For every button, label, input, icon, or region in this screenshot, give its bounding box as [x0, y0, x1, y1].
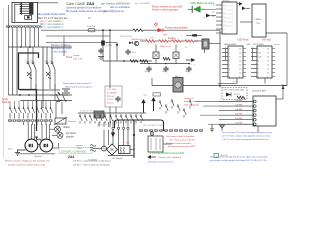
resistor R3 red: [172, 40, 181, 43]
diode D2: [129, 42, 132, 45]
wire: [257, 126, 259, 132]
svg-text:1N4148 zener 4,7v: 1N4148 zener 4,7v: [131, 38, 147, 41]
wire drop: [33, 28, 35, 47]
transformer T1 box: [119, 146, 131, 154]
wire contact down: [49, 75, 51, 89]
svg-text:10: 10: [267, 72, 269, 74]
wire lamp feed: [53, 147, 59, 149]
relay K4 box: [153, 52, 159, 59]
wire: [175, 59, 177, 64]
svg-text:0,5T a 45: 0,5T a 45: [73, 59, 83, 61]
wire drop: [29, 28, 31, 47]
capacitor C3: [98, 48, 103, 54]
wire ground link: [17, 149, 26, 151]
arrow left glyph: [148, 156, 156, 159]
svg-text:5: 5: [229, 64, 230, 66]
svg-text:14: 14: [267, 56, 269, 58]
node junction: [133, 134, 135, 136]
terminal T9: [44, 119, 47, 121]
svg-text:boutons radio: boutons radio: [184, 100, 198, 103]
wire elbow drop: [118, 120, 120, 127]
wire U3 pin 3: [216, 12, 222, 14]
wire U5 input 3: [219, 110, 253, 112]
wire: [41, 122, 43, 125]
svg-text:Fe: Fe: [31, 61, 33, 63]
wire elbow drop: [103, 122, 105, 127]
terminal power: [122, 127, 124, 129]
terminal pin 2 of J1: [20, 6, 33, 8]
diode D10: [116, 44, 119, 47]
wire U3 pin 8: [216, 32, 222, 34]
wire U3 pin 6: [216, 24, 222, 26]
wire: [196, 101, 219, 103]
contact row2 S12: [85, 114, 88, 124]
terminal row3 12: [194, 129, 197, 131]
contact row2 S18: [116, 114, 119, 124]
wire: [194, 40, 198, 42]
svg-text:8: 8: [258, 76, 259, 78]
svg-text:Me joyade Kindly aviser ou cor: Me joyade Kindly aviser ou corriger:: [66, 9, 108, 13]
svg-text:ULN bloc: ULN bloc: [222, 1, 230, 3]
svg-text:+5V reg: +5V reg: [262, 39, 271, 42]
svg-text:1 2 3C 3 5 7 TL TX: 1 2 3C 3 5 7 TL TX: [80, 111, 96, 113]
node junction: [19, 94, 21, 96]
svg-text:RST: RST: [212, 12, 215, 14]
svg-text:Cde REL: Cde REL: [235, 104, 243, 106]
wire top link: [38, 2, 59, 4]
svg-text:R22 4k7: R22 4k7: [107, 96, 115, 98]
wire under motors: [19, 153, 55, 155]
svg-text:100n: 100n: [112, 89, 116, 91]
wire: [246, 7, 251, 9]
wire under ICs: [218, 83, 237, 85]
contact S8: [41, 106, 44, 116]
wire: [175, 45, 177, 53]
opto module dashed box: [222, 88, 247, 100]
svg-text:Portese ouverte : Kyudesos 10u: Portese ouverte : Kyudesos 10u y pelude …: [5, 160, 51, 163]
wire U1 left pin 5: [222, 64, 228, 66]
wire: [32, 101, 34, 106]
relay K5 box: [173, 52, 179, 59]
wire fuse column: [102, 30, 104, 61]
contact row2 S20: [126, 114, 129, 124]
motor M2: [40, 139, 53, 152]
contact aux: [160, 100, 163, 110]
wire: [9, 116, 11, 119]
wire: [32, 116, 34, 119]
svg-text:alim et verification: alim et verification: [110, 6, 131, 9]
wire: [7, 5, 9, 95]
svg-text:( 12 V ) et le contact compose: ( 12 V ) et le contact composeutral sel …: [222, 138, 269, 141]
svg-text:9: 9: [267, 76, 268, 78]
pin circle U5.4: [254, 114, 257, 117]
terminal power: [117, 127, 119, 129]
wire right rail: [286, 33, 288, 86]
wire U2 left pin 2: [251, 52, 257, 54]
contact S10: [50, 106, 53, 116]
node junction: [188, 63, 190, 65]
wire right vertical: [219, 30, 221, 87]
node junction: [102, 29, 104, 31]
contact row2 S17: [110, 114, 113, 124]
terminal T3: [17, 119, 20, 121]
wire relay to right rail: [183, 85, 287, 87]
thick feeder vertical: [133, 120, 135, 158]
svg-text:C11 47u: C11 47u: [107, 99, 114, 101]
wire: [236, 78, 238, 84]
wire: [45, 122, 47, 125]
svg-text:11: 11: [239, 68, 241, 70]
terminal row3 9: [179, 129, 182, 131]
svg-text:Proga: Proga: [66, 56, 73, 59]
fuse F2 body: [101, 41, 105, 46]
wire: [45, 101, 47, 106]
wire: [108, 130, 110, 145]
wire U1 left pin 8: [222, 76, 228, 78]
svg-text:1: 1: [258, 48, 259, 50]
terminal X1: [7, 25, 10, 27]
wire: [27, 116, 29, 119]
wire: [116, 43, 118, 62]
terminal row3 4: [154, 129, 157, 131]
svg-text:R20: R20: [126, 143, 129, 145]
svg-text:470uF: 470uF: [145, 71, 151, 73]
wire: [9, 101, 11, 106]
wire U1 right pin 15: [243, 52, 246, 54]
wire elbow drop: [112, 120, 114, 127]
wire: [14, 101, 16, 106]
lamp signal: [57, 132, 63, 138]
transistor Q3: [134, 41, 138, 45]
wire: [151, 132, 153, 137]
ground: [98, 57, 104, 60]
svg-text:Nota : le contact (FI 100 SC): Nota : le contact (FI 100 SC) peut etre …: [210, 156, 268, 159]
contact aux: [190, 99, 193, 109]
terminal row3 10: [184, 129, 187, 131]
diode D9: [242, 7, 246, 11]
wire drop: [20, 28, 22, 47]
svg-text:Eyndicate: Eyndicate: [66, 132, 77, 135]
resistor R2 red: [159, 40, 168, 43]
terminal X2: [11, 25, 14, 27]
svg-text:15: 15: [239, 52, 241, 54]
wire U3 pin 7: [216, 28, 222, 30]
wire: [50, 122, 52, 125]
wire: [203, 105, 219, 107]
wire mid bus: [78, 112, 146, 114]
ground earth symbol: [15, 150, 20, 156]
svg-text:R4 10k R5 22k: R4 10k R5 22k: [120, 36, 132, 38]
svg-text:7k: 7k: [203, 18, 205, 20]
AC source symbol: [102, 146, 107, 151]
svg-text:6,3T A: 6,3T A: [106, 44, 112, 47]
svg-text:secteur: secteur: [76, 144, 83, 147]
svg-text:12: 12: [239, 64, 241, 66]
wire: [36, 116, 38, 119]
wire U2 left pin 1: [251, 48, 257, 50]
svg-text:Me joyade Kindly aviser: Me joyade Kindly aviser: [38, 12, 66, 16]
svg-text:QUADRO COMANDO: QUADRO COMANDO: [61, 149, 87, 153]
wire J1 internal bus: [14, 4, 16, 23]
LED D rouge photocellule: [158, 28, 163, 32]
timer box: [153, 93, 161, 96]
IC U1 box: [228, 46, 243, 78]
wire: [18, 116, 20, 119]
svg-text:Rsistanc: Rsistanc: [68, 120, 77, 123]
node junction: [20, 46, 22, 48]
wire U5 input 1: [219, 101, 253, 103]
wire: [116, 29, 133, 31]
wire U5 input 2: [219, 105, 253, 107]
svg-text:Fe: Fe: [50, 61, 52, 63]
contact S3: [19, 106, 22, 116]
svg-text:Ouvert et direkt clignotant: Ouvert et direkt clignotant: [152, 9, 179, 12]
svg-text:12V 300mA: 12V 300mA: [112, 157, 123, 160]
svg-text:4x7k: 4x7k: [150, 38, 154, 40]
wire: [18, 101, 20, 106]
wire U2 right pin 9: [272, 76, 275, 78]
svg-text:Tempo: Tempo: [73, 55, 80, 57]
svg-text:par postale, ou libre portail: par postale, ou libre portail ou et frem…: [210, 159, 267, 162]
wire U3 pin 2: [216, 8, 222, 10]
wire: [152, 85, 173, 87]
wire U1 left pin 6: [222, 68, 228, 70]
LED D verte: [192, 6, 200, 13]
svg-text:Ou: Ou: [26, 61, 28, 63]
wire: [108, 155, 134, 157]
svg-text:Les six relais: 12 L (tenue pa: Les six relais: 12 L (tenue paragerud fe…: [222, 131, 272, 134]
wire bus C: [20, 100, 72, 102]
contact row2 S15: [100, 114, 103, 124]
node junction: [28, 94, 30, 96]
relay K3 box: [202, 39, 209, 49]
wire U1 right pin 9: [243, 76, 246, 78]
wire U1 right pin 10: [243, 72, 246, 74]
terminal pin 1 of J1: [20, 3, 33, 5]
contact K2.1: [46, 47, 50, 75]
contact S5: [28, 106, 31, 116]
thick bus elbow: [115, 120, 164, 131]
wire: [52, 134, 57, 136]
svg-text:Balise: Balise: [64, 126, 71, 129]
wire to fuse line: [41, 29, 116, 31]
svg-text:Cde REL: Cde REL: [235, 100, 243, 102]
interlock arrows K1: [27, 72, 32, 79]
wire: [181, 40, 185, 42]
svg-text:contact 2 /: contact 2 /: [184, 97, 194, 100]
wire drop: [38, 28, 40, 47]
thick bus elbow K1: [19, 53, 39, 90]
wire U1 left pin 4: [222, 60, 228, 62]
wire mid rail: [140, 63, 190, 65]
arrow up 12V: [282, 86, 285, 89]
svg-text:1: 1: [229, 48, 230, 50]
resistor R1 red: [146, 40, 155, 43]
contact S6: [32, 106, 35, 116]
svg-text:12: 12: [267, 64, 269, 66]
svg-text:5x20 A: 5x20 A: [2, 101, 10, 104]
resistor: [237, 96, 245, 99]
pin circle U5.3: [254, 109, 257, 112]
wire: [109, 107, 111, 127]
jumper block inside J1: [25, 15, 32, 19]
terminal T7: [35, 119, 38, 121]
contact S4: [23, 106, 26, 116]
wire bus phase 2: [42, 47, 44, 108]
wire feed rail: [8, 46, 72, 48]
limit switch box: [148, 136, 163, 152]
wire motor feed: [30, 124, 32, 140]
svg-text:signaler: signaler: [66, 135, 74, 138]
wire: [50, 101, 52, 106]
wire: [264, 78, 266, 84]
wire: [127, 130, 129, 146]
contact K1.2: [32, 47, 36, 75]
label M2 blob: [44, 144, 49, 147]
svg-text:8: 8: [229, 76, 230, 78]
contact row2 S22: [136, 114, 139, 124]
connector J1 block: [12, 2, 38, 22]
svg-text:16: 16: [267, 48, 269, 50]
terminal pin 5 of J1: [20, 12, 33, 14]
contact S9: [46, 106, 49, 116]
capacitor C motor: [36, 139, 41, 144]
wire drop: [25, 28, 27, 47]
wire K3 down: [204, 49, 206, 53]
LED light arrows: [154, 23, 158, 27]
wire: [266, 32, 287, 34]
wire terminal drop: [12, 28, 14, 95]
terminal row3 7: [169, 129, 172, 131]
wire elbow drop: [98, 122, 100, 127]
svg-text:5: 5: [258, 64, 259, 66]
capacitor C5: [163, 66, 168, 72]
wire: [61, 102, 63, 114]
pin circle U5.2: [254, 105, 257, 108]
svg-text:(cde clignotant): (cde clignotant): [184, 103, 199, 106]
svg-text:1k: 1k: [185, 47, 187, 49]
terminal row3 5: [159, 129, 162, 131]
wire: [208, 123, 219, 125]
wire U2 left pin 5: [251, 64, 257, 66]
svg-text:Presa photocellules: Presa photocellules: [165, 26, 188, 30]
svg-text:Retour sonnerie de cycle (off): Retour sonnerie de cycle (off): [152, 5, 182, 8]
resistor: [140, 60, 148, 63]
wire U1 left pin 7: [222, 72, 228, 74]
wire: [58, 143, 60, 148]
wire: [15, 3, 20, 5]
wire: [155, 45, 157, 53]
wire U2 right pin 16: [272, 48, 275, 50]
svg-text:6: 6: [229, 68, 230, 70]
svg-text:4x 1N4007: 4x 1N4007: [107, 92, 118, 94]
svg-text:6: 6: [258, 68, 259, 70]
wire K3 out: [209, 43, 220, 45]
wire: [103, 130, 105, 147]
terminal power: [127, 127, 129, 129]
terminal pin 4 of J1: [20, 10, 33, 12]
wire motor feed: [41, 124, 43, 140]
capacitor C4: [146, 66, 151, 72]
wire: [163, 143, 172, 145]
node junction: [29, 46, 31, 48]
wire contact down: [54, 75, 56, 89]
wire bus B: [8, 94, 72, 96]
terminal row3 6: [164, 129, 167, 131]
wire: [27, 101, 29, 106]
wire U2 right pin 14: [272, 56, 275, 58]
wire: [240, 21, 252, 23]
svg-text:+12: +12: [213, 5, 216, 7]
contact row2 S16: [105, 114, 108, 124]
wire U5 input 6: [219, 123, 253, 125]
svg-text:Moteurs: Moteurs: [34, 155, 42, 158]
wire column: [54, 84, 56, 101]
wire terminal drop: [16, 28, 18, 95]
svg-text:(B) >> vers position 3: (B) >> vers position 3: [40, 26, 63, 29]
wire: [252, 48, 254, 61]
wire elbow drop: [123, 120, 125, 127]
resistor: [130, 60, 138, 63]
svg-text:Relais 1 et 2: Relais 1 et 2: [160, 45, 172, 48]
wire: [41, 116, 43, 119]
terminal row3 1: [139, 129, 142, 131]
svg-text:10 1 8 0 2 4 6: 10 1 8 0 2 4 6: [97, 125, 107, 127]
thermal overload F3: [56, 92, 66, 102]
indicator green box: [214, 154, 219, 158]
regulator U4 box: [252, 4, 266, 37]
capacitor C2: [125, 49, 130, 55]
wire U2 left pin 3: [251, 56, 257, 58]
svg-text:Schema piedal di controllore: Schema piedal di controllore: [66, 5, 102, 9]
contact row2 S23: [141, 114, 144, 124]
contact S2: [14, 106, 17, 116]
svg-text:ZA3: ZA3: [68, 155, 74, 159]
board outline QUADRO COMANDO: [59, 148, 92, 154]
svg-text:4xlED: 4xlED: [246, 44, 252, 46]
terminal T8: [40, 119, 43, 121]
node junction: [282, 85, 284, 87]
terminal row3 8: [174, 129, 177, 131]
node junction: [123, 60, 125, 62]
wire: [50, 116, 52, 119]
svg-text:+a in sortied: +a in sortied: [53, 50, 67, 53]
contact K2.2: [51, 47, 55, 75]
svg-text:14: 14: [239, 56, 241, 58]
contact row2 S11: [80, 114, 83, 124]
wire: [123, 130, 125, 146]
wire motor feed: [27, 124, 29, 140]
wire: [45, 116, 47, 119]
pin circle U5.1: [254, 100, 257, 103]
wire U3 pin 4: [216, 16, 222, 18]
svg-text:13: 13: [267, 60, 269, 62]
wire: [140, 40, 146, 42]
svg-text:sur 4x: sur 4x: [233, 81, 238, 83]
wire motor feed: [49, 124, 51, 140]
wire: [36, 101, 38, 106]
resistor: [133, 29, 143, 32]
svg-text:gerard@lycos.tel: gerard@lycos.tel: [104, 9, 124, 13]
transistor Q1: [226, 93, 231, 97]
ground lug: [210, 124, 214, 132]
svg-text:15: 15: [267, 52, 269, 54]
wire feed: [186, 34, 202, 36]
terminal X6: [28, 25, 31, 27]
svg-text:bornier: bornier: [50, 95, 57, 97]
wire motor feed: [34, 124, 36, 140]
wire U2 left pin 7: [251, 72, 257, 74]
